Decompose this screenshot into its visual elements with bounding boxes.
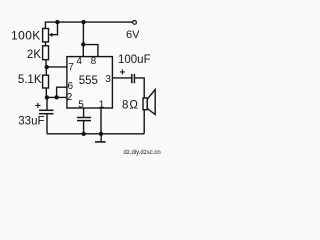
svg-text:5: 5: [78, 100, 84, 111]
wire pot wiper: [51, 22, 57, 35]
wire bottom rail: [47, 133, 144, 135]
node dot pin6 branch: [54, 95, 58, 99]
svg-text:3: 3: [105, 74, 111, 85]
svg-text:5.1K: 5.1K: [18, 74, 42, 86]
wire stub pot to 2K: [45, 42, 47, 46]
svg-text:555: 555: [79, 75, 98, 87]
svg-text:+: +: [120, 68, 126, 79]
wire 100uF to speaker: [135, 78, 144, 98]
node dot wiper/top rail: [55, 20, 59, 24]
wire speaker to bottom rail: [143, 110, 145, 134]
wire 2K to node: [45, 60, 47, 67]
wire pin 4/8 from rail: [82, 22, 84, 44]
wire drop to pot top: [44, 22, 46, 28]
resistor 100K (potentiometer body): [43, 29, 49, 42]
wire node to 33uF: [46, 98, 48, 111]
speaker LS1 8 ohm: [143, 98, 147, 110]
node dot 5.1K/pin2/33uF: [45, 95, 49, 99]
terminal 6V: [133, 21, 137, 25]
svg-text:1: 1: [99, 100, 105, 111]
wire node to pin 2: [47, 96, 67, 98]
wire node to pin 6: [57, 87, 67, 97]
wire pin 8: [83, 45, 98, 57]
resistor 2K: [43, 46, 49, 60]
node dot 2K/5.1K/pin7: [45, 65, 49, 69]
capacitor 33uF: [39, 109, 54, 111]
capacitor C2 100uF: [131, 74, 133, 83]
wire 33uF to bottom rail: [46, 114, 48, 134]
svg-text:7: 7: [68, 62, 74, 73]
svg-text:6: 6: [68, 81, 74, 92]
svg-text:2: 2: [67, 92, 73, 103]
wire 5.1K to node: [45, 88, 47, 98]
wiper arrowhead of 100K pot: [49, 33, 53, 37]
ground symbol: [100, 134, 102, 142]
svg-text:6V: 6V: [126, 29, 140, 41]
svg-text:+: +: [35, 101, 41, 112]
svg-text:dz.diy.dzsc.cn: dz.diy.dzsc.cn: [124, 150, 161, 156]
wire pin 1: [100, 108, 102, 134]
resistor 5.1K: [43, 75, 49, 88]
wire node to pin 7: [47, 66, 67, 68]
svg-text:2K: 2K: [27, 49, 41, 61]
svg-text:8: 8: [91, 56, 97, 67]
svg-text:33uF: 33uF: [18, 116, 44, 128]
wire pin5 cap to rail: [83, 121, 85, 134]
wire pin 3 output: [112, 77, 131, 79]
svg-text:100uF: 100uF: [118, 54, 151, 66]
op-amp U1 555 timer box: [67, 57, 113, 108]
node dot rail/pin4 branch: [81, 20, 85, 24]
svg-text:8Ω: 8Ω: [122, 100, 139, 112]
capacitor C3 at pin 5: [77, 117, 91, 119]
wire top rail 6V: [45, 21, 133, 23]
wire pin 4: [82, 44, 84, 56]
node dot pin5 cap to rail: [82, 132, 86, 136]
svg-text:4: 4: [76, 56, 82, 67]
wire node to 5.1K: [45, 67, 47, 75]
wire pin 5: [83, 108, 85, 118]
node dot ground/rail: [99, 132, 103, 136]
node dot pin4/pin8 branch: [81, 42, 85, 46]
svg-text:100K: 100K: [11, 28, 41, 42]
